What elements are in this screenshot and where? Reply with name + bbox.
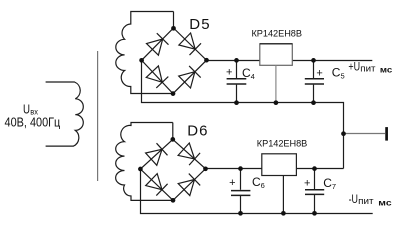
- bridge rectifier D6 diamond: [140, 139, 205, 200]
- svg-text:-U: -U: [349, 192, 358, 206]
- voltage regulator U1 KR142EN8V (top) box: [260, 44, 293, 66]
- wire: ground stub: [344, 133, 386, 135]
- U1 middle pin: [275, 65, 277, 103]
- node: D5 top vertex: [171, 26, 176, 31]
- diode D5 bottom-right: [179, 66, 201, 88]
- node: C6 top junction: [238, 166, 243, 171]
- svg-text:U: U: [23, 101, 30, 116]
- diode D6 bottom-left: [146, 174, 168, 196]
- wire: D6 minus drop / -U rail: [141, 169, 373, 214]
- node: D6 right vertex: [203, 166, 208, 171]
- svg-text:D6: D6: [187, 122, 208, 139]
- node: U1 pin junction: [274, 100, 279, 105]
- svg-text:пит: пит: [358, 196, 373, 206]
- node: C6 bottom junction: [238, 211, 243, 216]
- node: D6 bottom vertex: [171, 198, 176, 203]
- capacitor C4: [227, 61, 247, 103]
- wire: secondary top lead to D5 top vertex: [173, 12, 175, 29]
- wire: D5 minus drop: [142, 60, 344, 168]
- diode D6 top-right: [178, 143, 200, 165]
- node: C5 top junction: [311, 58, 316, 63]
- node: C4 bottom junction: [234, 100, 239, 105]
- capacitor C5: [305, 61, 324, 103]
- diode D5 top-left: [147, 33, 169, 55]
- svg-text:+: +: [316, 67, 322, 79]
- svg-text:40В, 400Гц: 40В, 400Гц: [5, 115, 61, 129]
- transformer core: [97, 51, 99, 181]
- diode D6 bottom-right: [178, 174, 200, 196]
- svg-text:мс: мс: [380, 65, 393, 75]
- svg-text:+U: +U: [348, 59, 360, 73]
- diode D6 top-left: [146, 143, 168, 165]
- node: U2 pin bottom junction: [281, 211, 286, 216]
- transformer primary winding: [46, 82, 84, 146]
- transformer secondary winding (bottom): [116, 123, 173, 201]
- node: D6 left vertex: [138, 167, 143, 172]
- svg-text:D5: D5: [189, 16, 210, 33]
- U2 middle pin: [282, 176, 284, 214]
- node: D5 left vertex: [139, 58, 144, 63]
- node: D5 bottom vertex: [171, 91, 176, 96]
- node: D6 top vertex: [170, 137, 175, 142]
- node: C7 top junction: [312, 166, 317, 171]
- transformer secondary winding (top): [116, 12, 174, 94]
- svg-text:КР142ЕН8В: КР142ЕН8В: [252, 29, 303, 39]
- node: C7 bottom junction: [312, 211, 317, 216]
- capacitor C6: [231, 169, 250, 214]
- bridge rectifier D5 diamond: [142, 28, 207, 94]
- node: D5 right vertex: [204, 58, 209, 63]
- wire: +U rail (top): [207, 60, 373, 62]
- svg-text:+: +: [304, 178, 310, 190]
- capacitor C7: [305, 169, 324, 214]
- diode D5 bottom-left: [146, 66, 168, 88]
- wire: bottom regulator rail: [206, 168, 344, 170]
- ground terminal bar: [385, 127, 388, 141]
- node: C5 bottom junction: [311, 100, 316, 105]
- svg-text:мс: мс: [378, 198, 392, 208]
- node: C4 top junction: [234, 58, 239, 63]
- svg-text:+: +: [229, 177, 235, 189]
- diode D5 top-right: [179, 33, 201, 55]
- node: ground tee junction: [341, 131, 346, 136]
- voltage regulator U2 KR142EN8V (bottom) box: [262, 154, 297, 176]
- wire: secondary bottom lead to D6 top vertex: [172, 123, 174, 140]
- svg-text:пит: пит: [360, 63, 375, 73]
- svg-text:+: +: [226, 67, 232, 79]
- svg-text:КР142ЕН8В: КР142ЕН8В: [257, 139, 308, 149]
